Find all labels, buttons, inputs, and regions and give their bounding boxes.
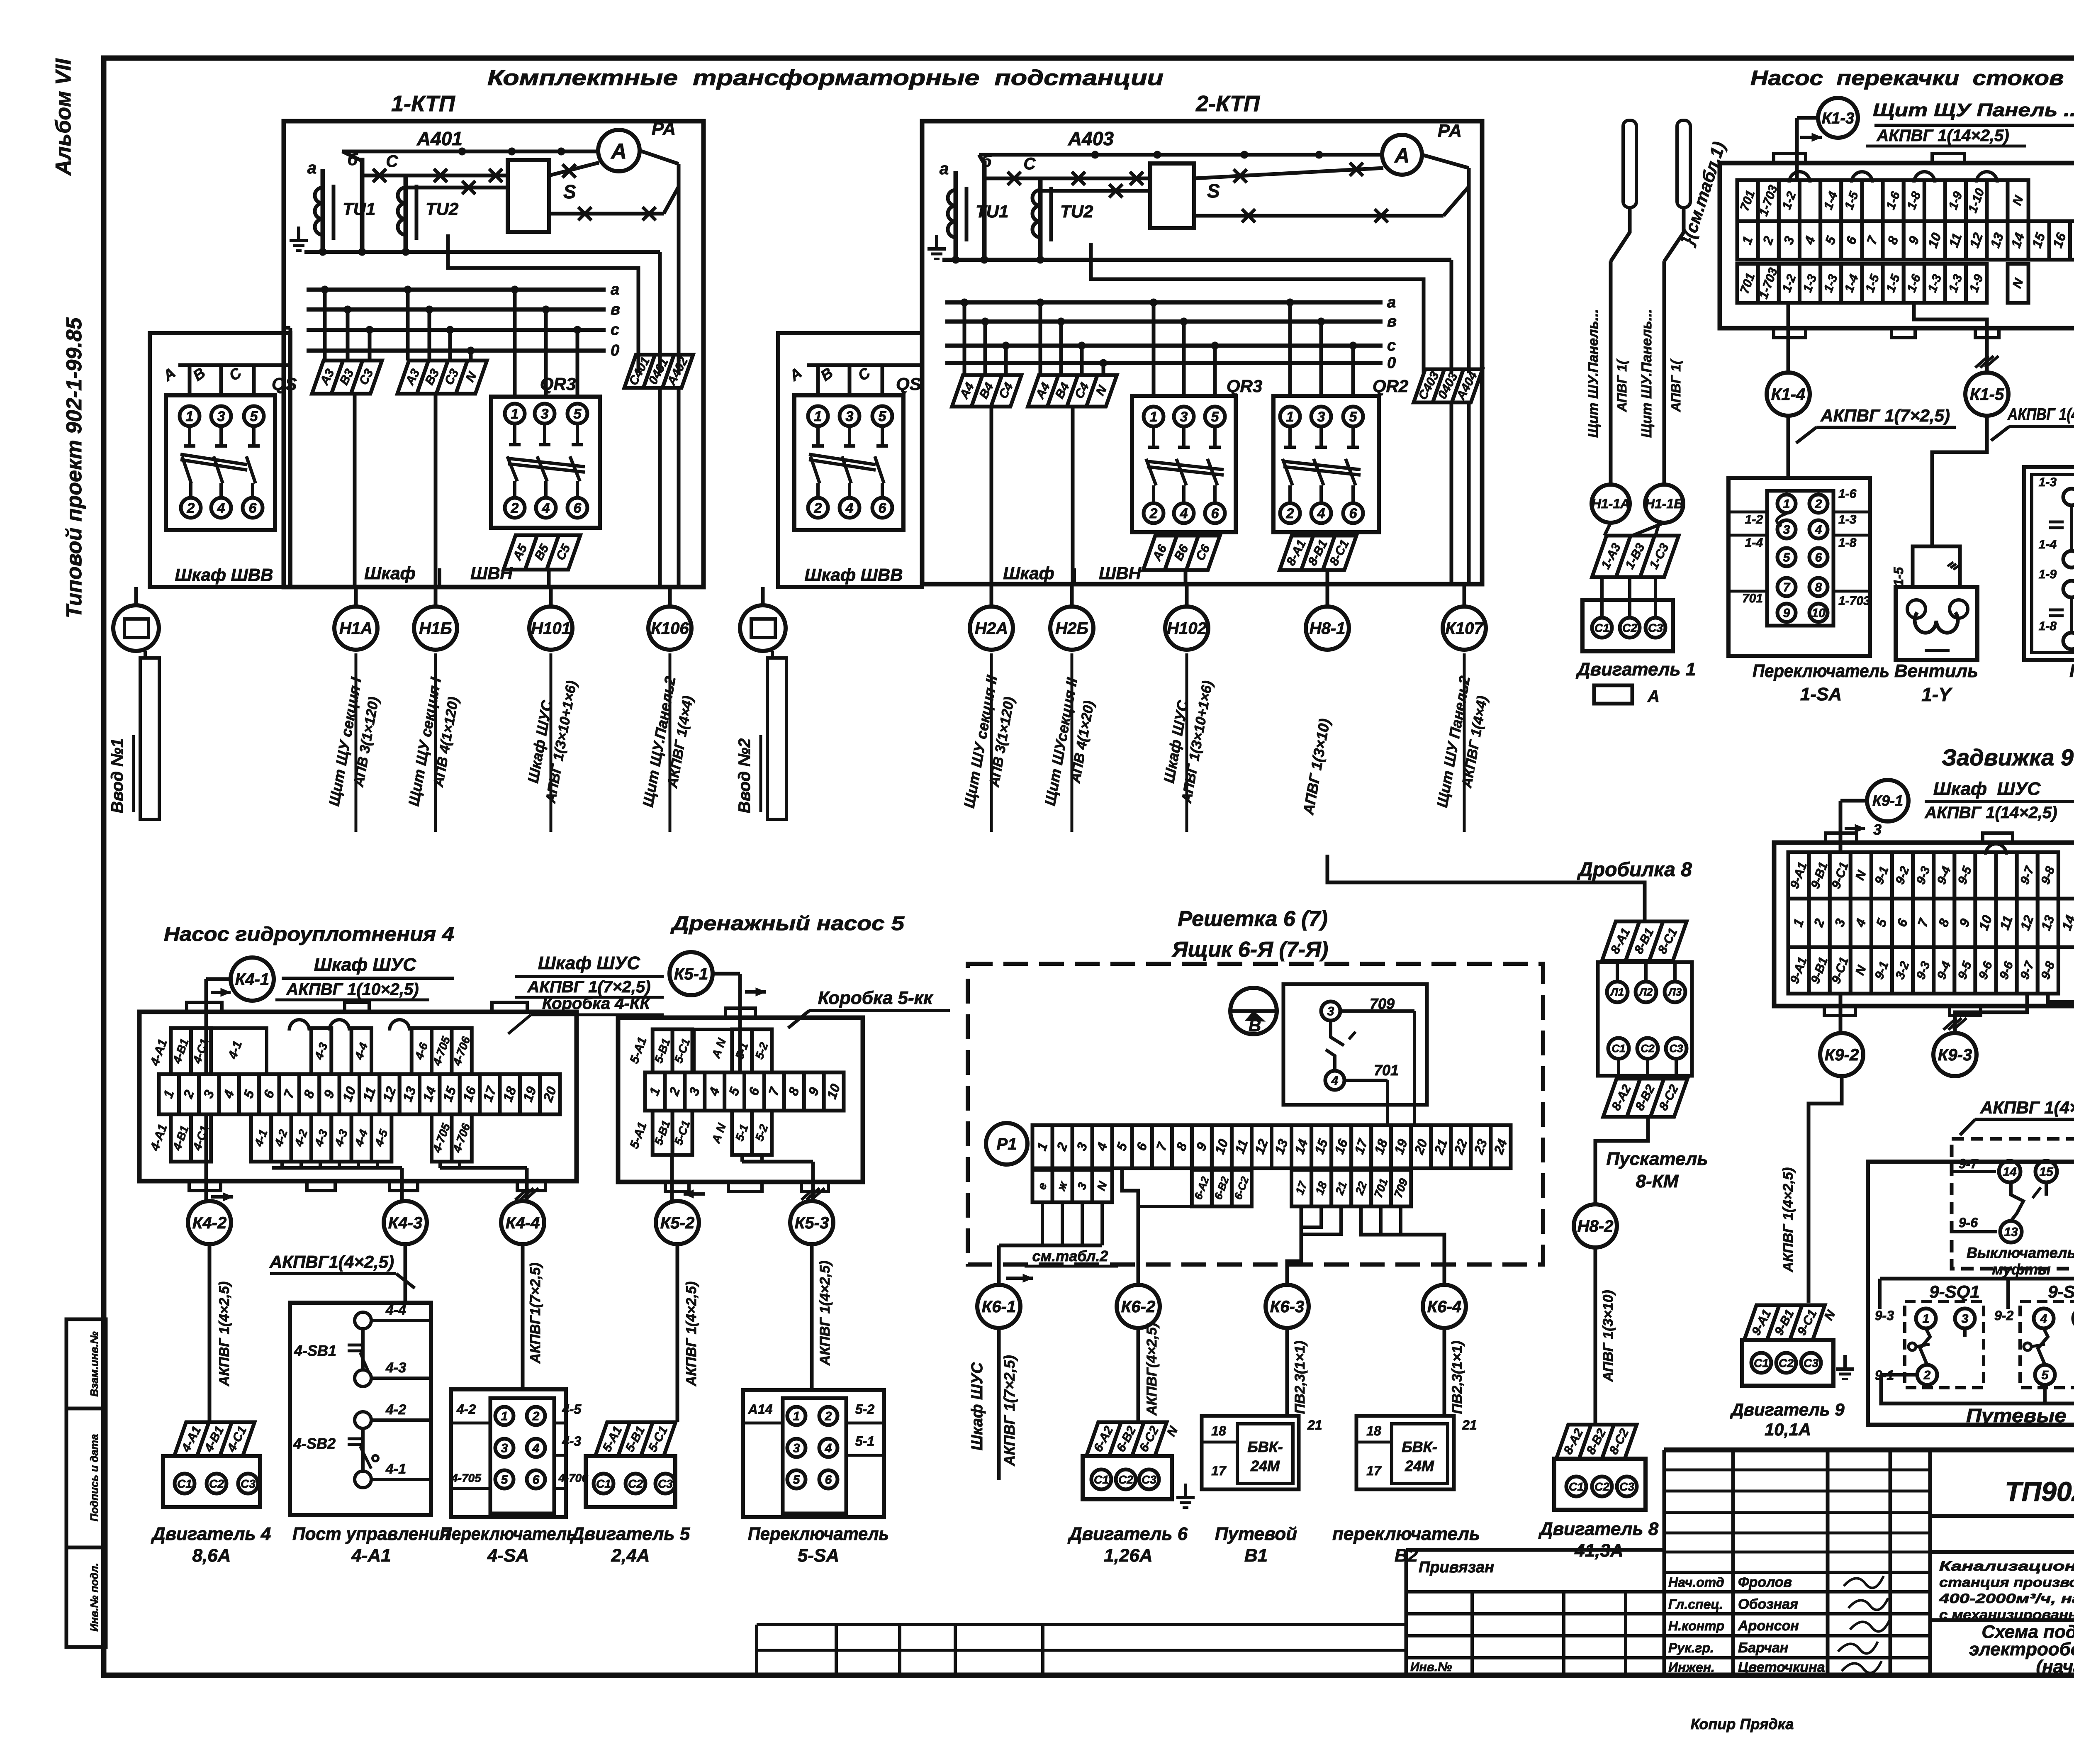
terminal strip 5-КК top labels	[652, 1029, 772, 1072]
wire Н8-2 down	[1595, 1247, 1616, 1425]
label 4-А1 rot top	[148, 1038, 170, 1068]
svg-text:8: 8	[1815, 581, 1822, 594]
svg-text:Насос перекачки стоков 1(2,: Насос перекачки стоков 1(2,3)	[1750, 66, 2074, 90]
svg-text:Пост: Пост	[2069, 661, 2074, 681]
terminal strip 9-КК jumper	[1986, 844, 2006, 855]
heading Насос перекачки стоков 1(2,3)	[1750, 66, 2074, 90]
heading Задвижка 9	[1942, 744, 2074, 770]
svg-text:Н1Б: Н1Б	[419, 619, 452, 638]
crusher connectors 8-А2	[1603, 1079, 1687, 1117]
cable АКПВГ 1(4x2,5) #1	[1991, 405, 2074, 441]
risers to Н1-1А Н1-1Б	[1585, 120, 1729, 485]
svg-text:Комплектные трансформаторные: Комплектные трансформаторные подстанции	[487, 66, 1164, 90]
wires to К4-4	[440, 1162, 538, 1201]
heading Дробилка 8	[1577, 859, 1692, 881]
svg-text:4: 4	[1180, 506, 1188, 521]
feeder tag Н102	[1165, 584, 1208, 650]
svg-text:К4-4: К4-4	[506, 1214, 540, 1232]
terminal strip 1-КК top labels	[1737, 180, 2028, 221]
svg-text:см.табл.2: см.табл.2	[1032, 1247, 1108, 1265]
label 5-А1 rot top	[627, 1035, 649, 1065]
svg-text:4-3: 4-3	[562, 1434, 581, 1449]
terminal tag Р1	[986, 1123, 1027, 1165]
svg-text:Щит ШУ.Панель...: Щит ШУ.Панель...	[1585, 309, 1601, 438]
svg-text:3: 3	[541, 406, 549, 422]
feeder tag Н1А	[334, 587, 377, 650]
svg-text:К9-3: К9-3	[1938, 1046, 1972, 1064]
terminal strip 4-КК bottom labels	[170, 1114, 472, 1162]
title block	[1664, 1450, 2074, 1677]
svg-text:Н101: Н101	[531, 619, 571, 638]
svg-text:S: S	[563, 181, 576, 202]
svg-text:станция производительностью: станция производительностью	[1939, 1575, 2074, 1590]
wire to К6-2	[1122, 1168, 1249, 1285]
cable label under Н102	[1160, 653, 1216, 832]
svg-text:АКПВГ 1(4×2,5): АКПВГ 1(4×2,5)	[1980, 1098, 2074, 1117]
svg-text:БВК-: БВК-	[1247, 1438, 1283, 1455]
svg-text:2: 2	[1149, 506, 1158, 521]
svg-text:6: 6	[1815, 551, 1822, 565]
svg-text:4: 4	[1317, 506, 1325, 521]
svg-text:Переключатель: Переключатель	[1753, 661, 1889, 681]
transformer substation 2-КТП	[922, 91, 1482, 584]
svg-text:1: 1	[186, 409, 194, 424]
pushbutton post Пост 1-SB	[2024, 416, 2074, 660]
svg-text:АКПВГ 1(14×2,5): АКПВГ 1(14×2,5)	[1924, 804, 2057, 822]
svg-text:21: 21	[1307, 1418, 1322, 1433]
label Двигатель 5	[570, 1524, 690, 1566]
svg-text:К1-4: К1-4	[1771, 385, 1805, 404]
svg-text:Л2: Л2	[1638, 986, 1653, 998]
svg-text:1: 1	[1783, 497, 1790, 511]
svg-text:муфты: муфты	[1992, 1261, 2051, 1278]
svg-text:1-703: 1-703	[1838, 594, 1870, 608]
svg-text:18: 18	[1366, 1423, 1381, 1438]
label Пускатель 8-КМ	[1607, 1149, 1708, 1191]
wire К5-1 into box	[713, 974, 766, 1072]
wire to К1-4	[1787, 303, 1790, 373]
svg-text:21: 21	[1462, 1418, 1477, 1433]
label А N rot bottom	[709, 1121, 728, 1145]
svg-text:К6-1: К6-1	[982, 1298, 1016, 1316]
svg-text:24М: 24М	[1250, 1457, 1280, 1474]
svg-text:С3: С3	[241, 1477, 256, 1490]
svg-text:Аронсон: Аронсон	[1738, 1618, 1799, 1634]
svg-text:C: C	[1024, 155, 1036, 173]
svg-text:0: 0	[611, 342, 619, 359]
label Щит ЩУ Панель (см.табл.1)	[1873, 100, 2074, 125]
terminal strip 1-КК jumpers	[1789, 172, 1997, 183]
label Двигатель 9	[1730, 1400, 1845, 1439]
svg-text:ПВ2,3(1×1): ПВ2,3(1×1)	[1449, 1341, 1465, 1414]
cable entry Ввод №2	[735, 587, 786, 819]
svg-text:8-КМ: 8-КМ	[1636, 1171, 1679, 1191]
svg-text:6: 6	[879, 500, 887, 516]
svg-text:в: в	[611, 301, 620, 318]
terminal strip 5-КК bottom labels	[652, 1111, 772, 1155]
svg-text:с: с	[611, 321, 619, 339]
svg-text:Шкаф ШВВ: Шкаф ШВВ	[175, 565, 273, 585]
svg-text:9-SQ1: 9-SQ1	[1929, 1282, 1979, 1302]
svg-text:1-КТП: 1-КТП	[391, 91, 455, 116]
relay tag К5-3	[790, 1201, 833, 1244]
wire К9-2 down	[1780, 1076, 1842, 1303]
strip Р1 left sublabels	[1032, 1170, 1112, 1202]
terminal box Коробка 9-КК	[1774, 833, 2074, 1016]
cable label under Н2А	[960, 653, 1018, 832]
wire К5-2 down	[677, 1244, 699, 1422]
feeder tag Н101	[529, 587, 572, 650]
relay tag К4-3	[384, 1201, 427, 1244]
svg-text:6: 6	[825, 1473, 832, 1487]
svg-text:Копир Прядка: Копир Прядка	[1691, 1715, 1794, 1732]
label Путевой В1	[1215, 1524, 1297, 1566]
terminal strip 4-КК big top cell	[211, 1028, 267, 1074]
svg-text:4: 4	[825, 1442, 832, 1455]
svg-text:Ящик 6-Я (7-Я): Ящик 6-Я (7-Я)	[1171, 938, 1328, 962]
svg-text:а: а	[1387, 294, 1396, 311]
relay tag К4-2	[188, 1201, 231, 1244]
svg-text:5-2: 5-2	[855, 1402, 874, 1417]
svg-text:4-SB2: 4-SB2	[293, 1435, 336, 1452]
terminal strip 1-КК bottom labels	[1737, 264, 2028, 303]
relay tag К6-2	[1117, 1285, 1160, 1328]
revision strip	[757, 1550, 1664, 1675]
svg-text:18: 18	[1211, 1423, 1226, 1438]
label переключатель В2	[1332, 1524, 1480, 1566]
svg-text:6: 6	[249, 500, 257, 516]
svg-text:C: C	[386, 152, 399, 171]
terminal strip 9-КК numbers 1-20	[1788, 899, 2074, 947]
svg-text:ПВ2,3(1×1): ПВ2,3(1×1)	[1292, 1341, 1308, 1414]
terminal strip 9-КК bottom labels	[1788, 947, 2059, 994]
svg-text:К5-2: К5-2	[660, 1214, 694, 1232]
feeder tag Н1-1А	[1592, 485, 1630, 523]
svg-text:РА: РА	[1438, 121, 1462, 141]
svg-text:7: 7	[1783, 581, 1791, 594]
svg-text:1: 1	[1150, 409, 1158, 425]
svg-text:701: 701	[1374, 1062, 1399, 1079]
svg-text:4-3: 4-3	[385, 1360, 406, 1376]
svg-text:Фролов: Фролов	[1738, 1574, 1792, 1590]
cable АКПВГ1(4x2,5) (4)	[269, 1252, 415, 1288]
svg-text:4-4: 4-4	[385, 1302, 406, 1318]
svg-text:ШВН: ШВН	[470, 563, 513, 583]
svg-text:4: 4	[845, 500, 854, 516]
svg-text:Коробка 5-кк: Коробка 5-кк	[818, 988, 934, 1008]
svg-text:13: 13	[2004, 1226, 2018, 1239]
relay tag К6-3	[1266, 1285, 1309, 1328]
svg-text:TU1: TU1	[343, 199, 375, 219]
svg-text:К1-5: К1-5	[1970, 385, 2004, 404]
svg-text:Гл.спец.: Гл.спец.	[1668, 1597, 1723, 1612]
svg-text:К5-3: К5-3	[795, 1214, 829, 1232]
svg-text:Инжен.: Инжен.	[1668, 1660, 1715, 1675]
svg-text:3: 3	[1783, 523, 1790, 537]
svg-text:2: 2	[1815, 497, 1822, 511]
label Шкаф ШВВ #1	[175, 565, 273, 585]
svg-text:24М: 24М	[1405, 1457, 1434, 1474]
svg-text:Подпись и дата: Подпись и дата	[88, 1434, 100, 1522]
svg-text:5: 5	[879, 409, 887, 424]
svg-text:Щит ШУ.Панель...: Щит ШУ.Панель...	[1639, 309, 1655, 438]
label Путевые выключатели	[1966, 1405, 2074, 1426]
svg-text:1-4: 1-4	[2039, 538, 2057, 551]
svg-text:а: а	[940, 160, 949, 178]
label Переключатель 4-SA	[440, 1524, 577, 1566]
feeder tag Н1Б	[414, 587, 457, 650]
terminal strip 5-КК numbers 1-10	[645, 1072, 844, 1111]
solenoid valve Вентиль 1-Y	[1891, 416, 1987, 660]
svg-text:С1: С1	[596, 1477, 611, 1490]
heading Комплектные трансформаторные подстанции	[487, 66, 1164, 90]
svg-text:С1: С1	[1094, 1473, 1109, 1486]
svg-text:Двигатель 4: Двигатель 4	[151, 1524, 271, 1544]
relay tag К9-3	[1933, 1033, 1977, 1076]
wires 6-А2 cells to bus	[1202, 1205, 1241, 1208]
svg-text:Обозная: Обозная	[1738, 1596, 1798, 1612]
svg-text:С3: С3	[1804, 1357, 1818, 1369]
label Шкаф ШВН #1	[364, 563, 513, 587]
svg-text:Н2А: Н2А	[975, 619, 1008, 638]
svg-text:АПВГ 1(: АПВГ 1(	[1668, 358, 1683, 412]
svg-text:переключатель: переключатель	[1332, 1524, 1480, 1544]
svg-text:К6-4: К6-4	[1427, 1298, 1461, 1316]
cable label К6-2	[1138, 1323, 1160, 1422]
relay tag К9-1	[1867, 780, 1908, 821]
svg-text:Шкаф ШУС: Шкаф ШУС	[538, 953, 640, 973]
limit switch переключатель В2	[1356, 1416, 1477, 1489]
svg-text:Инв.№ подл.: Инв.№ подл.	[88, 1563, 100, 1632]
left stamp column	[66, 1319, 106, 1647]
svg-text:4: 4	[2040, 1312, 2047, 1326]
svg-text:5: 5	[1783, 551, 1791, 565]
svg-text:9: 9	[1783, 607, 1790, 620]
svg-text:3: 3	[846, 409, 854, 424]
crusher connectors 8-А1	[1602, 921, 1687, 961]
svg-text:2: 2	[1286, 506, 1294, 521]
relay tag К1-4	[1767, 373, 1810, 416]
svg-text:С3: С3	[1142, 1473, 1156, 1486]
relay tag К9-2	[1820, 1033, 1863, 1076]
svg-text:АПВГ 1(: АПВГ 1(	[1614, 358, 1629, 412]
svg-text:1: 1	[793, 1410, 800, 1423]
svg-text:Н1А: Н1А	[339, 619, 372, 638]
drive symbol В	[1230, 988, 1277, 1035]
svg-text:С2: С2	[1779, 1357, 1794, 1369]
svg-text:Щит ЩУ Панель ...(см.табл.1): Щит ЩУ Панель ...(см.табл.1)	[1873, 100, 2074, 120]
svg-text:АКПВГ 1(7×2,5): АКПВГ 1(7×2,5)	[1820, 406, 1950, 425]
svg-text:Путевые выключатели: Путевые выключатели	[1966, 1405, 2074, 1426]
wire К1-3 to box	[1797, 118, 1822, 180]
svg-text:АКПВГ 1(4×2,5): АКПВГ 1(4×2,5)	[1780, 1167, 1796, 1272]
svg-text:17: 17	[1211, 1463, 1227, 1478]
bin box Ящик 6-Я	[968, 964, 1543, 1265]
svg-text:Нач.отд: Нач.отд	[1668, 1575, 1724, 1590]
svg-text:Ввод №2: Ввод №2	[735, 738, 754, 813]
svg-text:Пускатель: Пускатель	[1607, 1149, 1708, 1169]
svg-text:А401: А401	[416, 128, 463, 149]
label Вентиль 1-Y	[1894, 661, 1978, 705]
svg-text:Насос гидроуплотнения 4: Насос гидроуплотнения 4	[164, 923, 454, 945]
svg-text:QR2: QR2	[1373, 376, 1408, 396]
disconnect switch QS (ШВВ #2)	[778, 333, 922, 587]
svg-text:АКПВГ 1(14×2,5): АКПВГ 1(14×2,5)	[1876, 127, 2009, 145]
svg-text:5: 5	[501, 1473, 509, 1487]
label Двигатель 6	[1067, 1524, 1188, 1566]
cable label К6-4	[1444, 1328, 1465, 1416]
label Пост 1-SB	[2069, 661, 2074, 705]
wire К9-1 into box	[1840, 801, 1882, 852]
svg-text:Типовой проект 902-1-99.85: Типовой проект 902-1-99.85	[62, 317, 86, 618]
svg-text:Рук.гр.: Рук.гр.	[1668, 1640, 1714, 1655]
svg-text:В2: В2	[1395, 1545, 1418, 1566]
svg-text:Инв.№: Инв.№	[1410, 1660, 1452, 1674]
svg-text:4-1: 4-1	[385, 1461, 406, 1477]
svg-text:9-3: 9-3	[1875, 1308, 1894, 1323]
feeder tag Н2Б	[1050, 584, 1093, 650]
strip Р1 motor sublabels	[1192, 1170, 1251, 1206]
svg-text:Задвижка 9: Задвижка 9	[1942, 744, 2074, 770]
cable АКПВГ 1(7x2,5) #1	[1796, 406, 1956, 443]
svg-text:ШВН: ШВН	[1099, 563, 1142, 583]
svg-text:АКПВГ 1(7×2,5): АКПВГ 1(7×2,5)	[1001, 1355, 1018, 1466]
wire Н8-1 to Дробилка	[1327, 855, 1645, 921]
svg-text:А403: А403	[1068, 128, 1114, 149]
svg-text:4-705: 4-705	[451, 1472, 481, 1484]
svg-text:2,4А: 2,4А	[611, 1545, 650, 1566]
strip Р1 right sublabels	[1292, 1170, 1411, 1206]
svg-text:С1: С1	[1754, 1357, 1769, 1369]
wire К4-1 into box	[206, 979, 231, 1162]
svg-text:а: а	[307, 159, 316, 177]
svg-text:4-SA: 4-SA	[487, 1545, 529, 1566]
svg-text:С3: С3	[1619, 1480, 1634, 1493]
svg-text:4: 4	[1331, 1074, 1339, 1088]
svg-text:В1: В1	[1244, 1545, 1268, 1566]
cable entry Ввод №1	[108, 587, 159, 819]
svg-text:1-3: 1-3	[2039, 475, 2057, 489]
wires Р1 cells 1-4 to К6-1	[999, 1202, 1102, 1285]
cable label under Н1Б	[405, 653, 462, 832]
svg-text:A: A	[610, 139, 627, 163]
motor Двигатель 9	[1742, 1340, 1854, 1386]
svg-text:АКПВГ(4×2,5): АКПВГ(4×2,5)	[1144, 1323, 1160, 1416]
svg-text:К6-3: К6-3	[1270, 1298, 1304, 1316]
terminal strip 4-КК jumpers	[289, 1020, 409, 1031]
svg-text:3: 3	[1327, 1005, 1334, 1018]
svg-text:Переключатель: Переключатель	[440, 1524, 577, 1544]
svg-text:Переключатель: Переключатель	[748, 1524, 889, 1544]
svg-text:1: 1	[1923, 1312, 1930, 1326]
svg-text:БВК-: БВК-	[1402, 1438, 1437, 1455]
svg-text:5-1: 5-1	[855, 1434, 874, 1449]
svg-text:АКПВГ 1(7×2,5): АКПВГ 1(7×2,5)	[527, 978, 651, 996]
label Двигатель 4	[151, 1524, 271, 1566]
svg-text:а: а	[611, 281, 619, 298]
switch Переключатель 1-SA	[1728, 416, 1870, 656]
wires to К4-3	[272, 1162, 402, 1201]
relay tag К5-2	[656, 1201, 699, 1244]
transformer substation 1-КТП	[284, 91, 704, 587]
svg-text:К9-2: К9-2	[1825, 1046, 1859, 1064]
cable label under Н8-1	[1300, 717, 1333, 816]
label Пост управления 4-А1	[292, 1524, 450, 1566]
svg-text:АКПВГ1(7×2,5): АКПВГ1(7×2,5)	[528, 1263, 543, 1364]
svg-text:1: 1	[511, 406, 519, 422]
label Шкаф ШУС (5-cable)	[508, 953, 664, 1034]
svg-text:Шкаф ШВВ: Шкаф ШВВ	[805, 565, 903, 585]
svg-text:6: 6	[1211, 506, 1220, 521]
feeder tag Н8-1	[1306, 584, 1349, 650]
limit switch 9-SQ1	[1875, 1282, 2014, 1388]
svg-text:15: 15	[2039, 1165, 2054, 1179]
svg-text:14: 14	[2003, 1165, 2017, 1179]
svg-text:1,26А: 1,26А	[1104, 1545, 1152, 1566]
svg-text:5: 5	[250, 409, 258, 424]
svg-text:3: 3	[1317, 409, 1325, 425]
svg-text:Н102: Н102	[1167, 619, 1207, 638]
svg-text:АКПВГ 1(4×2,5): АКПВГ 1(4×2,5)	[2007, 405, 2074, 424]
cable label under Н2Б	[1041, 653, 1097, 832]
label Переключатель 1-SA	[1753, 661, 1889, 704]
svg-text:К1-3: К1-3	[1822, 110, 1854, 127]
svg-text:1-5: 1-5	[1891, 567, 1906, 586]
limit switch Путевой В1	[1202, 1416, 1322, 1489]
svg-text:АКПВГ 1(4×2,5): АКПВГ 1(4×2,5)	[817, 1261, 833, 1366]
switch Переключатель 4-SA	[451, 1244, 588, 1517]
svg-text:5: 5	[2042, 1369, 2049, 1382]
svg-text:С3: С3	[1648, 621, 1663, 634]
svg-text:А14: А14	[748, 1402, 773, 1417]
svg-text:QS: QS	[896, 374, 921, 394]
svg-text:Двигатель 5: Двигатель 5	[570, 1524, 690, 1544]
svg-text:4: 4	[532, 1442, 540, 1455]
label Переключатель 5-SA	[748, 1524, 889, 1566]
svg-text:Двигатель 1: Двигатель 1	[1575, 659, 1696, 680]
crusher terminal box	[1598, 961, 1692, 1079]
feeder tag К106	[648, 587, 691, 650]
wire to К9-2	[1839, 994, 1843, 1033]
svg-text:Л3: Л3	[1667, 986, 1682, 998]
svg-text:4-SB1: 4-SB1	[294, 1342, 336, 1359]
heading Насос гидроуплотнения 4	[164, 923, 454, 945]
svg-text:4-2: 4-2	[456, 1402, 476, 1417]
motor Двигатель 8	[1554, 1456, 1646, 1510]
svg-text:Н8-1: Н8-1	[1310, 619, 1346, 638]
motor 9 connectors	[1744, 1305, 1838, 1340]
relay tag К5-1	[669, 952, 713, 995]
svg-text:К6-2: К6-2	[1121, 1298, 1155, 1316]
label Шкаф ШВВ #2	[805, 565, 903, 585]
wire to К9-4	[2048, 994, 2074, 1033]
svg-text:5: 5	[574, 406, 582, 422]
heading Дренажный насос 5	[670, 913, 905, 935]
svg-text:С1: С1	[177, 1477, 192, 1490]
svg-text:1: 1	[1286, 409, 1294, 425]
motor 6 connectors	[1086, 1422, 1181, 1456]
cable label under К107	[1434, 653, 1491, 832]
svg-text:Шкаф ШУС: Шкаф ШУС	[1933, 779, 2041, 799]
svg-text:9-SQ2: 9-SQ2	[2048, 1282, 2074, 1302]
relay tag К4-4	[501, 1201, 544, 1244]
svg-text:1: 1	[814, 409, 822, 424]
terminal strip Р1 numbers 1-24	[1032, 1125, 1511, 1168]
cable label under Н101	[524, 653, 580, 832]
relay tag К6-4	[1423, 1285, 1466, 1328]
motor 8 connectors	[1556, 1425, 1637, 1459]
terminal strip 4-КК numbers 1-20	[159, 1074, 560, 1114]
